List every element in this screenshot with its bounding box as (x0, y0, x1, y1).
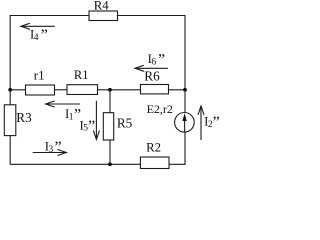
label R4 (94, 0, 110, 13)
label I4'' (30, 27, 48, 44)
svg-text:”: ” (213, 114, 220, 131)
resistor R3 (4, 105, 16, 136)
wire bottom side from R2 to junction (110, 163, 140, 165)
svg-text:R6: R6 (144, 68, 160, 83)
wire between r1 and R1 (55, 89, 68, 91)
svg-text:3: 3 (49, 145, 54, 155)
svg-text:R5: R5 (117, 116, 133, 131)
wire bottom side from junction to bottom-left corner (10, 136, 110, 165)
junction node left (R3 top / middle row) (8, 88, 12, 92)
svg-text:E2,r2: E2,r2 (147, 102, 173, 116)
svg-text:R3: R3 (16, 110, 32, 125)
wire left side through R3 region (9, 90, 11, 105)
wire top side left of R4 (10, 16, 89, 90)
wire R6 to right side (169, 89, 186, 91)
svg-text:r1: r1 (34, 68, 45, 83)
wire middle row left segment (10, 89, 25, 91)
wire bottom side from corner to R2 (169, 163, 185, 165)
svg-text:R4: R4 (94, 0, 110, 13)
resistor R4 (89, 11, 118, 21)
junction node right (R6 / right side) (183, 88, 187, 92)
svg-text:6: 6 (151, 57, 156, 67)
label I2'' (204, 114, 220, 131)
current arrow I3'' pointing right (33, 150, 66, 156)
label E2,r2 (147, 102, 173, 116)
label R5 (117, 116, 133, 131)
resistor R5 (103, 113, 113, 140)
EMF source E2,r2 circle (175, 113, 195, 133)
label R1 (74, 68, 89, 82)
svg-text:”: ” (88, 118, 95, 135)
current arrow I6'' pointing left (135, 65, 168, 71)
current arrow I2'' pointing up (198, 106, 204, 140)
wire top side right of R4 (118, 16, 186, 113)
label I3'' (45, 139, 62, 156)
svg-text:”: ” (158, 51, 165, 68)
label R6 (144, 68, 160, 83)
svg-text:”: ” (41, 27, 48, 44)
label I1'' (65, 107, 81, 124)
label I5'' (80, 118, 96, 135)
wire R1 to middle junction (98, 89, 111, 91)
resistor R2 (140, 157, 169, 169)
junction node bottom (R5 bottom) (108, 162, 112, 166)
label R2 (146, 141, 161, 155)
wire right side below source to bottom-right corner (184, 132, 186, 165)
svg-text:R2: R2 (146, 141, 161, 155)
current arrow I5'' pointing down (94, 101, 100, 139)
current arrow I4'' pointing left (21, 23, 54, 29)
svg-text:4: 4 (34, 33, 39, 43)
wire middle junction to R6 (110, 89, 141, 91)
wire middle vertical top segment (109, 90, 111, 113)
resistor R6 (141, 85, 169, 94)
resistor r1 (26, 85, 55, 95)
label I6'' (148, 51, 166, 68)
label R3 (16, 110, 32, 125)
svg-text:R1: R1 (74, 68, 89, 82)
svg-text:”: ” (55, 139, 62, 156)
label r1 (34, 68, 45, 83)
wire middle vertical bottom segment (109, 140, 111, 164)
current arrow I1'' pointing left (46, 101, 80, 107)
EMF arrow inside source pointing up (182, 113, 186, 121)
junction node middle (R1 / R6 / R5) (108, 88, 112, 92)
resistor R1 (67, 85, 98, 95)
